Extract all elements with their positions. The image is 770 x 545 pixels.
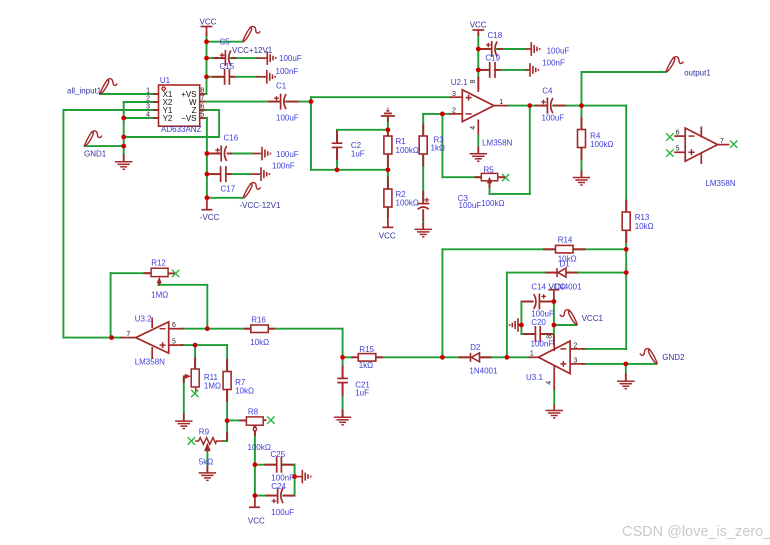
- node tick gnd C25: [292, 474, 297, 479]
- power VCC under R2: [382, 216, 393, 227]
- stubs C14: [522, 301, 534, 303]
- wire to output1: [582, 71, 667, 73]
- stubs C21: [342, 366, 344, 379]
- wire gnd to R1: [387, 117, 389, 136]
- svg-text:100uF: 100uF: [276, 114, 299, 123]
- stubs C1: [268, 101, 281, 103]
- capacitor C18: [486, 41, 531, 57]
- svg-text:6: 6: [676, 130, 680, 137]
- wire bottom rail to R1: [311, 169, 388, 171]
- wire gnd net vertical: [123, 102, 125, 155]
- trimmer R8: [246, 417, 263, 431]
- stubs C20: [523, 333, 536, 335]
- wire C25/C24 right vertical: [294, 465, 296, 496]
- wire Y1: [63, 109, 158, 111]
- supply flag VCC+12V1: [243, 26, 260, 41]
- resistor R16: [251, 325, 268, 333]
- net flag GND2: [640, 349, 657, 364]
- stubs R15: [351, 356, 358, 358]
- svg-text:7: 7: [720, 138, 724, 145]
- svg-text:3: 3: [146, 103, 150, 110]
- svg-text:4: 4: [546, 381, 553, 385]
- svg-text:AD633ANZ: AD633ANZ: [161, 125, 202, 134]
- wire C15 left: [207, 76, 225, 78]
- wire GND1: [85, 145, 124, 147]
- svg-text:8: 8: [470, 80, 477, 84]
- svg-text:2: 2: [146, 95, 150, 102]
- op-amp U2.1: [450, 78, 513, 148]
- wire node to R13 col: [582, 105, 627, 107]
- ground under U3.1: [546, 411, 563, 419]
- capacitor C15: [225, 69, 266, 85]
- svg-text:VCC: VCC: [379, 232, 396, 241]
- ground above R1 (flipped): [381, 109, 395, 122]
- svg-text:10kΩ: 10kΩ: [635, 222, 654, 231]
- svg-text:2: 2: [452, 108, 456, 115]
- svg-text:5: 5: [200, 111, 204, 118]
- svg-text:8: 8: [547, 335, 554, 339]
- svg-text:1: 1: [530, 351, 534, 358]
- stubs R16: [244, 328, 251, 330]
- svg-text:4: 4: [146, 111, 150, 118]
- stubs R7: [226, 359, 228, 372]
- wire U3.1 pin4: [553, 388, 555, 405]
- svg-text:C14: C14: [531, 282, 546, 291]
- capacitor C5: [220, 50, 267, 66]
- wire R16 col: [342, 329, 344, 358]
- wire pin6 row: [181, 328, 251, 330]
- node D2 left: [440, 355, 445, 360]
- ground under C21: [334, 417, 351, 425]
- svg-text:C16: C16: [224, 133, 239, 142]
- svg-text:7: 7: [126, 331, 130, 338]
- svg-text:C15: C15: [220, 62, 235, 71]
- wire R7 top: [226, 345, 228, 371]
- node C4 out: [579, 103, 584, 108]
- resistor R14: [556, 245, 574, 253]
- wire D2 to U3.1 out: [482, 356, 530, 358]
- svg-text:1N4001: 1N4001: [469, 366, 498, 375]
- node U3.2 out: [109, 335, 114, 340]
- svg-text:LM358N: LM358N: [482, 139, 512, 148]
- wire C14/C20 right vertical: [553, 299, 555, 345]
- capacitor C19: [490, 62, 530, 78]
- svg-text:1N4001: 1N4001: [554, 282, 583, 291]
- wire C20 left: [521, 333, 535, 335]
- wire C24 right: [283, 495, 294, 497]
- diode D1: [552, 268, 571, 277]
- stubs C3: [422, 191, 424, 204]
- capacitor C1: [274, 94, 286, 110]
- capacitor C3: [417, 198, 429, 210]
- wire R9 col: [226, 421, 228, 441]
- svg-text:100kΩ: 100kΩ: [396, 199, 419, 208]
- svg-text:VCC1: VCC1: [582, 314, 604, 323]
- wire C16 right: [229, 153, 253, 155]
- ground under R4: [573, 178, 590, 186]
- svg-text:R16: R16: [251, 315, 266, 324]
- node C18/C19: [476, 47, 481, 52]
- wire R7 bottom: [226, 390, 228, 421]
- no-connect X at R12: [172, 270, 179, 277]
- svg-text:R14: R14: [558, 236, 573, 245]
- wire R9 lead: [223, 440, 227, 442]
- wire R15 right to D2: [376, 356, 467, 358]
- svg-text:R5: R5: [484, 166, 495, 175]
- net flag all_input1: [100, 79, 117, 94]
- svg-text:C5: C5: [220, 38, 231, 47]
- svg-text:U1: U1: [160, 76, 171, 85]
- wire C5 left: [207, 57, 225, 59]
- wire R13 bottom col: [625, 230, 627, 349]
- wire C2 top lead: [336, 130, 338, 143]
- svg-text:R8: R8: [248, 408, 259, 417]
- wire +VS stub join: [200, 93, 207, 95]
- wire -VCC-12V1 row: [207, 197, 243, 199]
- svg-text:VCC: VCC: [470, 21, 487, 30]
- net flag GND1: [85, 131, 102, 146]
- wire U2.1 pin4 to gnd: [477, 135, 479, 147]
- ground under R11 wiper: [175, 421, 192, 429]
- capacitor C14: [534, 294, 546, 310]
- wire C2 bottom: [336, 148, 338, 170]
- wire R4 top: [581, 106, 583, 130]
- svg-text:4: 4: [470, 126, 477, 130]
- svg-text:5: 5: [676, 146, 680, 153]
- node U2.1 out: [527, 103, 532, 108]
- svg-text:R12: R12: [151, 259, 166, 268]
- wire C20 right: [541, 333, 554, 335]
- capacitor C2: [332, 143, 343, 147]
- net flag output1: [666, 57, 683, 72]
- svg-text:all_input1: all_input1: [67, 86, 102, 95]
- wire C16 left: [207, 153, 220, 155]
- svg-text:10kΩ: 10kΩ: [235, 386, 254, 395]
- wire U2.1 out to C4: [508, 105, 547, 107]
- stubs R9: [226, 432, 228, 442]
- wire wiper to output: [490, 193, 530, 195]
- wire output feedback vertical: [529, 106, 531, 194]
- svg-text:LM358N: LM358N: [135, 358, 165, 367]
- wire C21 top: [342, 357, 344, 378]
- node C1 out: [309, 99, 314, 104]
- resistor R1: [384, 136, 392, 154]
- wire R12 wiper tail: [158, 281, 160, 285]
- resistor R9 (zigzag): [195, 438, 223, 451]
- supply flag VCC1: [560, 310, 577, 325]
- svg-text:C20: C20: [531, 318, 546, 327]
- node D1 right: [624, 270, 629, 275]
- wire U3.1 pin4 tail: [553, 405, 555, 411]
- svg-text:Y2: Y2: [163, 114, 173, 123]
- stubs R3: [422, 124, 424, 137]
- svg-text:C4: C4: [542, 87, 553, 96]
- node pin3 GND2: [623, 362, 628, 367]
- wire output riser: [581, 72, 583, 106]
- wire VCC rail down to U1 +VS: [206, 33, 208, 94]
- svg-text:6: 6: [172, 322, 176, 329]
- wire R11 top: [194, 345, 196, 369]
- svg-text:D2: D2: [470, 343, 481, 352]
- svg-text:U3.1: U3.1: [526, 373, 543, 382]
- wire U3.1 pin2: [583, 348, 626, 350]
- svg-text:output1: output1: [684, 69, 711, 78]
- svg-text:1uF: 1uF: [351, 150, 365, 159]
- stubs R2: [387, 177, 389, 190]
- resistor R3: [419, 136, 427, 154]
- wire -VS vertical: [200, 117, 207, 119]
- wire all_input1 to X1: [100, 93, 159, 95]
- svg-text:C18: C18: [488, 31, 503, 40]
- svg-text:1uF: 1uF: [355, 389, 369, 398]
- svg-text:−VS: −VS: [181, 114, 196, 123]
- wire R4 bottom: [581, 147, 583, 170]
- svg-text:VCC: VCC: [200, 18, 217, 27]
- stubs C4: [535, 105, 548, 107]
- ground under C3: [415, 229, 432, 237]
- svg-text:100kΩ: 100kΩ: [590, 140, 613, 149]
- svg-text:100uF: 100uF: [542, 114, 565, 123]
- svg-text:100nF: 100nF: [542, 59, 565, 68]
- wire R16 right: [268, 328, 342, 330]
- stubs R14: [543, 248, 556, 250]
- ground at pin3: [625, 364, 627, 373]
- stubs R4: [581, 117, 583, 130]
- wire C21 bottom: [342, 383, 344, 416]
- node C25 left: [253, 462, 258, 467]
- stubs C16: [209, 153, 222, 155]
- power VCC top-left: [201, 27, 213, 37]
- wire R14 col down: [441, 249, 443, 357]
- ground under U2.1: [470, 154, 487, 162]
- trimmer R5: [481, 173, 497, 183]
- svg-text:VCC: VCC: [248, 517, 265, 526]
- wire Z back: [124, 136, 219, 138]
- wire R3 top: [422, 114, 424, 136]
- wire C19 left: [478, 69, 489, 71]
- svg-text:1MΩ: 1MΩ: [151, 291, 168, 300]
- stubs C24: [265, 495, 278, 497]
- stubs R12: [143, 272, 150, 274]
- svg-text:CSDN @love_is_zero_: CSDN @love_is_zero_: [622, 524, 770, 540]
- svg-text:VCC+12V1: VCC+12V1: [232, 46, 273, 55]
- svg-text:7: 7: [200, 95, 204, 102]
- svg-text:100nF: 100nF: [276, 67, 299, 76]
- svg-text:100uF: 100uF: [279, 54, 302, 63]
- wire R12 wiper row: [158, 284, 207, 286]
- svg-text:C17: C17: [221, 184, 236, 193]
- wire to R5 left: [442, 176, 481, 178]
- no-connect X at R11: [195, 387, 197, 392]
- wire R2 to VCC: [387, 207, 389, 216]
- ground GND1 net: [115, 162, 132, 170]
- svg-text:100kΩ: 100kΩ: [396, 146, 419, 155]
- svg-text:R15: R15: [359, 345, 374, 354]
- wire left feedback vertical: [62, 110, 64, 338]
- wire C24 left: [255, 495, 277, 497]
- op-amp spare LM358N: [674, 127, 736, 189]
- wire R5 wiper down: [489, 182, 491, 194]
- wire VCC row to VCC+12V1 pigtail: [207, 41, 243, 43]
- wire C19 right: [495, 69, 525, 71]
- wire R12 col down: [110, 273, 112, 337]
- svg-text:100uF: 100uF: [459, 201, 482, 210]
- svg-text:5: 5: [172, 339, 176, 346]
- svg-text:U2.1: U2.1: [451, 78, 468, 87]
- stubs C18: [479, 48, 492, 50]
- capacitor C21: [337, 378, 348, 382]
- ground tick right of C25/C24: [295, 476, 302, 478]
- wire D1 col down: [506, 273, 508, 358]
- wire R15 left: [343, 356, 353, 358]
- wire C4 to node: [553, 105, 581, 107]
- wire R12 wiper col: [206, 285, 208, 328]
- node -VS rail: [205, 151, 210, 156]
- node VCC1 tap: [552, 323, 557, 328]
- wire R13 top col: [625, 106, 627, 212]
- wire C17 left: [207, 173, 220, 175]
- wire pin2 row: [423, 113, 450, 115]
- capacitor C16: [215, 146, 261, 162]
- wire C14/C20 left vertical: [520, 302, 522, 335]
- wire Y2: [124, 117, 159, 119]
- power VCC at C14: [548, 290, 559, 299]
- no-connect X at R8: [267, 417, 274, 424]
- svg-text:100kΩ: 100kΩ: [248, 443, 271, 452]
- svg-text:LM358N: LM358N: [705, 179, 735, 188]
- trimmer R11: [184, 369, 199, 387]
- svg-text:C19: C19: [485, 54, 500, 63]
- no-connect X at R5: [502, 174, 509, 181]
- wire D1 left: [507, 272, 552, 274]
- wire node down: [310, 102, 312, 170]
- wire VCC2 vertical: [477, 33, 479, 78]
- stubs D1: [545, 272, 557, 274]
- stubs C19: [479, 69, 490, 71]
- resistor R4: [578, 130, 586, 148]
- resistor R7: [223, 372, 231, 390]
- svg-text:5kΩ: 5kΩ: [199, 457, 213, 466]
- svg-text:10kΩ: 10kΩ: [250, 338, 269, 347]
- wire R8 left: [227, 419, 246, 421]
- power -VCC: [201, 198, 212, 210]
- wire VCC1 tap: [554, 324, 577, 326]
- resistor R2: [384, 189, 392, 207]
- wire C18 right: [497, 48, 525, 50]
- node pin5 R11: [193, 343, 198, 348]
- wire pin2 node down: [441, 114, 443, 177]
- svg-text:1MΩ: 1MΩ: [204, 381, 221, 390]
- svg-text:C25: C25: [270, 450, 285, 459]
- wire D1 right: [568, 272, 626, 274]
- svg-text:C1: C1: [276, 82, 287, 91]
- node VCC rail: [204, 39, 209, 44]
- svg-text:100nF: 100nF: [272, 162, 295, 171]
- wire X2: [124, 101, 159, 103]
- capacitor C4: [541, 98, 553, 114]
- wire node riser: [310, 97, 312, 101]
- node gnd tap C14: [519, 323, 524, 328]
- supply flag -VCC-12V1: [243, 183, 260, 198]
- op-amp U3.2 (mirrored): [121, 315, 184, 367]
- wire R9 wiper down: [206, 450, 208, 466]
- stubs C5: [213, 57, 226, 59]
- wire C14 right: [540, 301, 554, 303]
- wire R14 left: [442, 248, 555, 250]
- stub U2.1 power top: [477, 77, 479, 90]
- wire U3.1 pin3: [583, 363, 657, 365]
- wire to U2.1 pin3: [311, 96, 450, 98]
- no-connect X at spare pins: [666, 133, 673, 140]
- stubs R1: [387, 130, 389, 136]
- wire U1 W to C1: [200, 101, 278, 103]
- svg-text:1: 1: [499, 99, 503, 106]
- diode D2: [466, 353, 484, 362]
- wire R14 right: [573, 248, 626, 250]
- svg-text:3: 3: [574, 357, 578, 364]
- node R13/R14: [624, 247, 629, 252]
- node C24 left: [253, 493, 258, 498]
- capacitor C25: [277, 457, 282, 473]
- wire C2 top rail: [337, 129, 388, 131]
- wire C25 left: [255, 464, 276, 466]
- node R1 top/bottom: [386, 127, 391, 132]
- wire pin5 row: [181, 344, 227, 346]
- IC U1 AD633ANZ: [146, 76, 205, 134]
- stubs R11: [194, 357, 196, 369]
- power VCC top-right: [472, 30, 484, 36]
- node U2.1 pin2: [440, 112, 445, 117]
- stubs C25: [264, 464, 277, 466]
- wire C18 left: [478, 48, 491, 50]
- wire R8 wiper col: [254, 431, 256, 496]
- svg-text:1kΩ: 1kΩ: [359, 361, 373, 370]
- svg-text:R13: R13: [635, 213, 650, 222]
- svg-text:-VCC: -VCC: [200, 213, 220, 222]
- svg-text:3: 3: [452, 91, 456, 98]
- wire R3 to C3: [422, 154, 424, 201]
- node R7/R8/R9: [225, 418, 230, 423]
- resistor R15: [358, 354, 376, 362]
- svg-text:GND1: GND1: [84, 150, 107, 159]
- svg-text:-VCC-12V1: -VCC-12V1: [240, 201, 281, 210]
- node R16 pin6: [205, 326, 210, 331]
- svg-text:100uF: 100uF: [547, 47, 570, 56]
- stubs C17: [208, 173, 221, 175]
- ground under R9 wiper: [199, 473, 216, 481]
- svg-text:1kΩ: 1kΩ: [431, 144, 445, 153]
- wire Z right: [200, 109, 219, 111]
- op-amp U3.1 (mirrored): [526, 335, 585, 390]
- svg-text:100uF: 100uF: [276, 150, 299, 159]
- capacitor C17: [221, 166, 261, 182]
- stubs D2: [459, 356, 471, 358]
- svg-text:R1: R1: [396, 137, 407, 146]
- svg-text:8: 8: [200, 87, 204, 94]
- wire C3 to gnd: [422, 221, 424, 223]
- svg-text:C24: C24: [271, 482, 286, 491]
- stubs R13: [625, 200, 627, 213]
- svg-text:2: 2: [574, 342, 578, 349]
- svg-text:100nF: 100nF: [531, 339, 554, 348]
- trimmer R12: [151, 268, 168, 283]
- node R15 left: [340, 355, 345, 360]
- stubs R8: [239, 419, 246, 421]
- svg-text:U3.2: U3.2: [135, 315, 152, 324]
- wire C25 right: [282, 464, 295, 466]
- capacitor C20: [535, 326, 540, 342]
- wire R12 left: [111, 272, 151, 274]
